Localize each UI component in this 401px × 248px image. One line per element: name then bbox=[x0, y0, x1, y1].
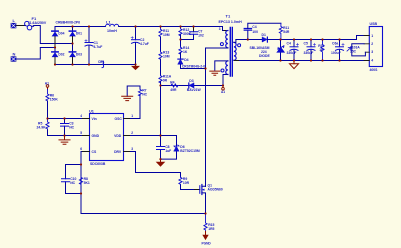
svg-text:AOD5N60: AOD5N60 bbox=[208, 187, 223, 191]
svg-text:D01: D01 bbox=[76, 32, 82, 36]
diode D03 (bridge bottom-right) bbox=[69, 52, 82, 57]
svg-text:5: 5 bbox=[80, 131, 82, 135]
resistor R15 1R5 (sense) bbox=[204, 214, 215, 232]
svg-text:330uF: 330uF bbox=[287, 51, 297, 55]
svg-text:N: N bbox=[13, 52, 16, 57]
ground below C3 (bars) bbox=[59, 136, 70, 145]
svg-text:5K1: 5K1 bbox=[84, 181, 90, 185]
svg-text:4: 4 bbox=[371, 58, 373, 62]
wire output top rail bbox=[267, 36, 369, 40]
resistor R13 10M bbox=[159, 51, 170, 60]
svg-text:D02: D02 bbox=[58, 53, 64, 57]
resistor R6 150K bbox=[46, 90, 58, 102]
svg-text:U1: U1 bbox=[89, 109, 94, 113]
svg-text:A1: A1 bbox=[45, 82, 49, 86]
svg-text:1K: 1K bbox=[183, 50, 188, 54]
resistor R11A 0R bbox=[159, 75, 172, 83]
wire R14 to D4 bbox=[180, 53, 182, 59]
ground below C8 (filled triangle) bbox=[156, 159, 166, 167]
svg-text:3: 3 bbox=[371, 50, 373, 54]
wire OSC to R7 bbox=[131, 118, 141, 120]
diode D4 CRSTM04G-2-0 bbox=[178, 58, 205, 69]
svg-text:VDD: VDD bbox=[114, 134, 122, 138]
svg-text:1: 1 bbox=[131, 114, 133, 118]
svg-text:10M: 10M bbox=[163, 33, 170, 37]
connector L terminal bbox=[11, 18, 16, 28]
svg-text:T1.6A/250V: T1.6A/250V bbox=[28, 21, 47, 25]
wire R9 to gate bbox=[181, 185, 195, 190]
resistor R11 10M bbox=[159, 27, 170, 38]
fuse F1 bbox=[25, 16, 47, 30]
svg-text:1: 1 bbox=[371, 34, 373, 38]
wire aux to A1 bbox=[161, 85, 224, 87]
svg-text:USB: USB bbox=[370, 22, 378, 26]
svg-text:24.9K: 24.9K bbox=[37, 126, 47, 130]
transformer secondary winding bbox=[234, 40, 370, 61]
wire D4 to drain node bbox=[181, 64, 206, 68]
svg-text:4.7uF: 4.7uF bbox=[140, 42, 149, 46]
bridge rails bbox=[55, 27, 73, 65]
resistor R10 1K bbox=[318, 40, 324, 61]
svg-text:NC: NC bbox=[142, 92, 147, 96]
svg-text:3: 3 bbox=[219, 27, 221, 31]
svg-text:PGND: PGND bbox=[202, 241, 212, 245]
wire L1 to transformer bbox=[119, 26, 223, 28]
inductor L1 bbox=[106, 19, 119, 33]
resistor R8 5K1 bbox=[79, 177, 90, 185]
ground above U1 (bars, for R7) bbox=[122, 96, 133, 100]
svg-text:CS: CS bbox=[92, 150, 97, 154]
wire R6 to Vin line bbox=[48, 101, 82, 119]
wire/loop connector pins 2-3 with part 6103A bbox=[347, 44, 365, 56]
diode D01 (bridge top-right) bbox=[69, 31, 82, 36]
wire L to fuse bbox=[16, 25, 25, 27]
wire R13 to R11A bbox=[160, 59, 162, 75]
svg-text:2: 2 bbox=[131, 131, 133, 135]
svg-text:D3: D3 bbox=[189, 79, 193, 83]
svg-text:6: 6 bbox=[80, 147, 82, 151]
wire fuse to bridge (L input) bbox=[34, 26, 73, 44]
power port A1 (right, aux) bbox=[221, 86, 225, 95]
transistor Q1 AOD5N60 MOSFET bbox=[200, 184, 223, 214]
svg-text:NC: NC bbox=[70, 181, 75, 185]
connector J2 USB bbox=[364, 22, 382, 72]
resistor R4 49R bbox=[170, 80, 178, 91]
transformer aux winding bbox=[215, 61, 228, 86]
ground output (open triangle) bbox=[290, 61, 299, 69]
svg-text:330uF: 330uF bbox=[304, 51, 314, 55]
svg-text:D4: D4 bbox=[184, 58, 188, 62]
transformer primary winding bbox=[206, 27, 228, 49]
svg-text:0R: 0R bbox=[163, 79, 168, 83]
wire secondary to D1 bbox=[236, 39, 262, 41]
zener diode (output clamp) bbox=[277, 40, 285, 61]
svg-text:150K: 150K bbox=[50, 98, 59, 102]
svg-text:3: 3 bbox=[131, 147, 133, 151]
svg-text:CRBB4008-2P6: CRBB4008-2P6 bbox=[56, 21, 81, 25]
diode D1 SBL160ASM bbox=[250, 33, 271, 58]
resistor R11 54R (snubber) bbox=[279, 23, 290, 39]
svg-text:54R: 54R bbox=[283, 30, 290, 34]
bridge pin leads (black) bbox=[55, 37, 73, 65]
resistor R9 10R (gate) bbox=[179, 177, 190, 185]
capacitor C3 NC bbox=[61, 119, 75, 136]
svg-text:L1: L1 bbox=[106, 19, 111, 24]
svg-text:1R5: 1R5 bbox=[208, 227, 214, 231]
capacitor C8 1uF bbox=[157, 145, 172, 153]
power port PGND (down arrow) bbox=[202, 232, 212, 246]
svg-text:BAV21W: BAV21W bbox=[187, 88, 202, 92]
wire DRV to gate resistor bbox=[131, 152, 181, 178]
svg-text:C4: C4 bbox=[252, 25, 256, 29]
svg-text:OSC: OSC bbox=[115, 117, 123, 121]
svg-text:4.7uF: 4.7uF bbox=[94, 45, 103, 49]
svg-text:DRV: DRV bbox=[114, 150, 122, 154]
svg-text:10M: 10M bbox=[163, 55, 170, 59]
svg-text:C5: C5 bbox=[304, 42, 308, 46]
svg-text:4: 4 bbox=[80, 114, 82, 118]
wire R11A to aux node bbox=[160, 82, 162, 86]
diode D04 (bridge top-left) bbox=[52, 31, 65, 36]
capacitor C7 102 bbox=[190, 27, 204, 40]
svg-text:R4: R4 bbox=[170, 80, 174, 84]
bead CB1 on bottom rail bbox=[98, 60, 105, 68]
svg-text:Vin: Vin bbox=[92, 117, 97, 121]
svg-text:GND: GND bbox=[92, 134, 100, 138]
diode D3 BAV21W bbox=[187, 79, 202, 92]
capacitor C1 bbox=[85, 27, 103, 65]
wire bridge top rail to L1 bbox=[73, 26, 106, 28]
ground below C2 bbox=[131, 65, 140, 71]
power port A1 (left) bbox=[45, 82, 49, 90]
svg-text:1K: 1K bbox=[319, 48, 324, 52]
svg-text:10mH: 10mH bbox=[107, 29, 117, 33]
svg-text:49R: 49R bbox=[170, 88, 177, 92]
resistor R12 300K bbox=[179, 27, 192, 36]
svg-text:100: 100 bbox=[252, 30, 258, 34]
svg-text:10R: 10R bbox=[183, 181, 190, 185]
svg-text:T1: T1 bbox=[226, 14, 231, 19]
svg-text:D1: D1 bbox=[262, 33, 266, 37]
svg-text:CB1: CB1 bbox=[98, 60, 105, 64]
diode D02 (bridge bottom-left) bbox=[52, 52, 65, 57]
svg-text:BZT52C15M: BZT52C15M bbox=[180, 149, 200, 153]
svg-text:C4: C4 bbox=[287, 42, 291, 46]
transformer T1 core bbox=[230, 28, 232, 77]
capacitor C10 NC bbox=[62, 165, 82, 194]
capacitor C4 100 (snubber over D1) bbox=[244, 23, 281, 39]
svg-text:EPC13 1.0mH: EPC13 1.0mH bbox=[219, 20, 243, 24]
svg-text:102: 102 bbox=[198, 34, 204, 38]
svg-text:DIODE: DIODE bbox=[259, 54, 270, 58]
svg-text:2: 2 bbox=[371, 42, 373, 46]
ground aux top bbox=[210, 71, 220, 75]
svg-text:C6a: C6a bbox=[332, 42, 338, 46]
svg-text:100uF: 100uF bbox=[331, 51, 341, 55]
resistor R5 24.9K bbox=[37, 119, 50, 131]
svg-text:NC: NC bbox=[69, 126, 74, 130]
svg-text:D03: D03 bbox=[76, 53, 82, 57]
wire N to bridge bbox=[16, 48, 55, 60]
svg-text:SDC603B: SDC603B bbox=[90, 162, 106, 166]
op-amp U1 controller SDC603B bbox=[80, 109, 133, 166]
svg-text:25C: 25C bbox=[350, 49, 357, 53]
wire R12/C7 join bbox=[181, 35, 194, 47]
wire bridge bottom rail to C2 bbox=[73, 64, 136, 66]
wire GND line bbox=[48, 130, 82, 136]
connector N terminal bbox=[11, 52, 16, 62]
wire CS pin loop bbox=[81, 152, 206, 214]
wire VDD net bbox=[131, 86, 177, 160]
capacitor C6a 100uF bbox=[331, 40, 344, 61]
zener D6 BZT52C15M bbox=[161, 136, 200, 160]
svg-text:1uF: 1uF bbox=[165, 149, 171, 153]
svg-text:400S: 400S bbox=[370, 68, 379, 72]
capacitor C4 330uF (output) bbox=[287, 40, 299, 61]
wire drain vertical bbox=[205, 48, 207, 187]
svg-text:A1: A1 bbox=[221, 90, 225, 94]
resistor R7 NC (OSC) bbox=[127, 86, 147, 119]
capacitor C5 330uF (output) bbox=[304, 40, 316, 61]
capacitor C2 bbox=[131, 27, 149, 65]
svg-text:D04: D04 bbox=[58, 32, 64, 36]
resistor R14 1K bbox=[179, 46, 189, 54]
wire R11 to R13 bbox=[160, 37, 162, 51]
